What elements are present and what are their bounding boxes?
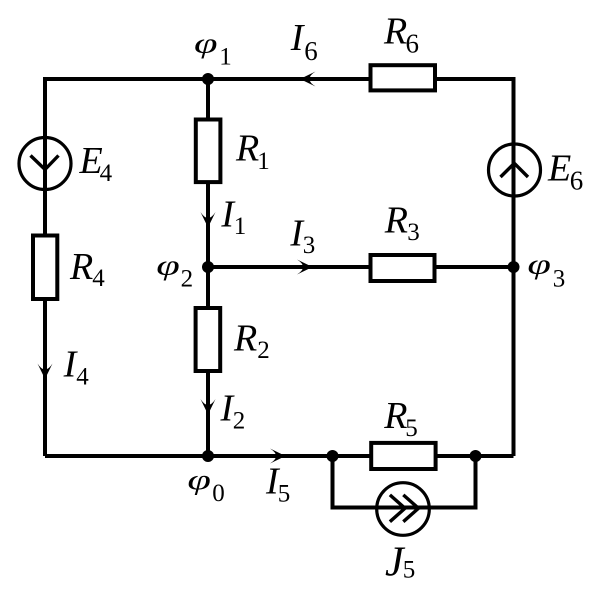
- wire right rail (through E6, phi3): [512, 77, 516, 456]
- wire middle vertical (phi1 through R1, phi2, R2 to phi0): [206, 79, 210, 456]
- node phi1 junction dot: [202, 73, 214, 85]
- svg-text:4: 4: [92, 265, 105, 292]
- svg-text:6: 6: [304, 36, 318, 66]
- voltage source E4 circle: [19, 138, 71, 190]
- svg-text:3: 3: [407, 219, 420, 246]
- svg-text:2: 2: [233, 407, 246, 434]
- wire J5 bypass loop: [333, 456, 476, 508]
- resistor R3: [371, 255, 435, 281]
- resistor R6: [371, 65, 436, 90]
- node phi0 junction dot: [202, 450, 214, 462]
- svg-text:φ: φ: [156, 249, 180, 281]
- svg-text:1: 1: [257, 148, 270, 175]
- voltage source E6 circle: [489, 144, 541, 196]
- svg-text:R: R: [383, 10, 407, 52]
- resistor R1: [196, 120, 221, 183]
- current source J5 double chevron (points right): [390, 495, 419, 522]
- svg-text:5: 5: [403, 556, 416, 583]
- svg-text:0: 0: [212, 480, 225, 507]
- svg-text:E: E: [547, 148, 571, 190]
- wire middle horizontal (phi2 to phi3, carries I3 through R3): [208, 265, 514, 269]
- wire bottom rail (left corner through phi0, R5 to right corner): [45, 454, 514, 458]
- svg-text:φ: φ: [194, 27, 218, 59]
- svg-text:1: 1: [219, 43, 232, 70]
- wire left rail (through E4 and R4): [43, 77, 47, 456]
- svg-text:R: R: [383, 395, 407, 437]
- junction dot J5 left: [327, 450, 339, 462]
- resistor R4: [33, 236, 57, 300]
- node phi3 junction dot: [508, 261, 520, 273]
- svg-text:R: R: [233, 318, 257, 360]
- svg-text:2: 2: [181, 266, 194, 293]
- current arrow I6 head (points left): [300, 72, 316, 87]
- svg-text:5: 5: [405, 415, 418, 442]
- svg-text:φ: φ: [187, 463, 211, 495]
- svg-text:R: R: [69, 246, 93, 288]
- svg-text:R: R: [235, 128, 259, 170]
- svg-text:3: 3: [303, 232, 316, 259]
- svg-text:6: 6: [406, 29, 420, 59]
- svg-text:5: 5: [278, 480, 291, 507]
- current arrow I3 head (points right): [297, 260, 313, 275]
- current arrow I4 head (points down): [38, 364, 53, 380]
- resistor R2: [196, 308, 221, 371]
- svg-text:3: 3: [553, 266, 566, 293]
- node phi2 junction dot: [202, 261, 214, 273]
- wire top-right segment (R6 to right corner): [437, 77, 514, 81]
- voltage source E4 arrow chevron (points down): [31, 156, 59, 170]
- svg-text:4: 4: [76, 363, 89, 390]
- svg-text:1: 1: [234, 213, 247, 240]
- svg-text:6: 6: [570, 166, 584, 196]
- wire top-left segment (left corner to node phi1): [45, 77, 208, 81]
- svg-text:φ: φ: [527, 248, 551, 280]
- current source J5 circle: [377, 483, 430, 536]
- junction dot J5 right: [470, 450, 482, 462]
- svg-text:R: R: [384, 200, 408, 242]
- current arrow I2 head (points down): [201, 399, 216, 415]
- current arrow I1 head (points down): [201, 212, 216, 228]
- wire top-middle segment (phi1 to R6, carries I6): [208, 77, 369, 81]
- svg-text:2: 2: [257, 337, 270, 364]
- svg-text:4: 4: [100, 160, 113, 187]
- voltage source E6 arrow chevron (points up): [501, 163, 529, 177]
- current arrow I5 head (points right): [270, 449, 286, 464]
- resistor R5: [371, 443, 435, 469]
